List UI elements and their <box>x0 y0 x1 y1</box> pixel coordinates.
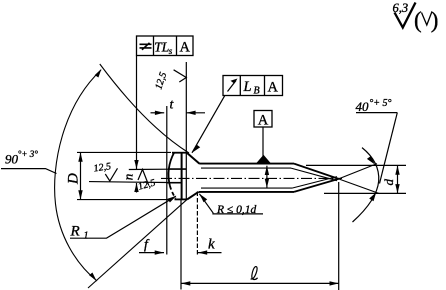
thread dia double arrow up <box>265 166 269 175</box>
extension line below head at max diameter (for f/k and l) <box>180 199 182 290</box>
arrow n top <box>134 160 138 169</box>
screw head dome arc (dashed lower part) <box>170 186 176 199</box>
roughness check on slot floor vertical line <box>174 70 187 82</box>
R<=0,1d leader <box>199 194 263 214</box>
dimension t line left segment <box>151 112 165 114</box>
datum A box <box>254 111 272 128</box>
svg-text:D: D <box>66 173 82 185</box>
40 degree dimension arc <box>353 148 379 222</box>
arrow d top <box>395 165 399 174</box>
screw head dome arc (solid part) <box>169 152 175 185</box>
extension line V1 (dome apex) <box>166 106 168 255</box>
svg-text:40: 40 <box>356 99 370 114</box>
datum A stem <box>262 127 264 156</box>
arrow n bottom <box>134 183 138 192</box>
svg-text:A: A <box>258 113 269 129</box>
40 degree label shelf <box>356 112 397 114</box>
arrow R leader <box>199 194 207 202</box>
roughness check on slot bottom ext line <box>105 3 432 186</box>
wire: D top extension line <box>77 151 171 153</box>
svg-text:d: d <box>381 179 396 186</box>
arrowheads <box>78 69 399 286</box>
screw head max-diameter edge (thick vertical) <box>181 153 183 199</box>
surface finish big check top right <box>395 3 416 28</box>
shank bottom line <box>199 191 294 193</box>
head cone bottom edge <box>187 192 198 200</box>
feature control frame TLs <box>137 36 194 56</box>
90 degree label shelf <box>1 169 57 174</box>
90 degree dimension arc <box>55 70 101 281</box>
dimension k line <box>198 252 222 254</box>
d top extension line <box>306 164 406 166</box>
dimension D line <box>80 152 82 199</box>
svg-text:A: A <box>268 80 279 96</box>
symmetry symbol in first cell <box>140 43 152 50</box>
dimension t line right segment <box>186 112 205 114</box>
arrow D bottom <box>78 190 82 199</box>
thread dia double arrow down <box>265 179 269 188</box>
feature control frame LB <box>223 76 283 96</box>
thread minor diameter bottom line <box>201 187 292 189</box>
slot bottom line (inside head) <box>167 182 182 184</box>
tip taper top edge <box>294 164 339 179</box>
40 degree label leader <box>380 113 398 184</box>
arrow k <box>198 250 207 254</box>
shank top line <box>199 163 294 165</box>
slot floor line V3 (extension above head to slot floor) <box>185 62 187 200</box>
screw head top edge <box>172 152 187 154</box>
arrow 90 arc bottom <box>89 273 96 281</box>
extension line from bearing plane (for k) <box>196 192 198 255</box>
svg-text:°+ 3°: °+ 3° <box>18 149 38 159</box>
arrow 40 arc bottom <box>369 192 376 201</box>
svg-text:6,3: 6,3 <box>393 1 409 15</box>
tip taper bottom edge <box>294 179 339 192</box>
thread minor taper bottom <box>292 177 337 189</box>
svg-text:TL: TL <box>154 39 169 54</box>
LB frame leader <box>192 96 225 153</box>
arrow d bottom <box>395 184 399 193</box>
tip point extension lower (40deg line) <box>339 179 380 194</box>
svg-text:°+ 5°: °+ 5° <box>369 98 391 109</box>
svg-text:): ) <box>431 8 439 33</box>
svg-text:(: ( <box>414 8 422 33</box>
arrow LB leader <box>192 145 200 153</box>
90 degree angle line A (upper-left) <box>100 64 189 153</box>
svg-text:B: B <box>254 86 260 97</box>
slot top surface extension line (n dimension) <box>129 168 170 170</box>
svg-text:n: n <box>121 174 136 181</box>
slot top line <box>169 168 186 170</box>
arrow t left <box>155 111 164 115</box>
arrow D top <box>78 152 82 161</box>
wire: D bottom extension line <box>77 199 170 201</box>
screw head bottom edge <box>175 198 188 200</box>
svg-text:k: k <box>208 237 215 253</box>
extension line from tip down to l dimension <box>338 182 340 290</box>
svg-text:L: L <box>243 79 252 95</box>
arrow l right <box>330 281 339 285</box>
dimension d line <box>397 165 399 193</box>
small check in parentheses <box>422 12 432 25</box>
screw axis centerline <box>161 177 342 179</box>
svg-text:90: 90 <box>5 152 19 167</box>
svg-text:R: R <box>70 224 80 240</box>
tip point extension upper (40deg line) <box>339 164 377 179</box>
dimension l line <box>181 282 339 284</box>
roughness check (inverted) under slot top ext line <box>138 169 149 185</box>
arrow R1 leader <box>168 196 177 203</box>
arrow l left <box>181 281 190 285</box>
thread minor taper top <box>291 168 337 181</box>
svg-text:R ≤ 0,1d: R ≤ 0,1d <box>216 204 256 216</box>
dimension f line <box>139 252 164 254</box>
arrow f <box>155 250 164 254</box>
head cone top edge <box>187 153 200 164</box>
arrow t right <box>186 111 195 115</box>
90 degree angle line B (lower-left) <box>88 199 187 288</box>
slot bottom surface extension line (with roughness mark) <box>89 181 167 184</box>
datum A filled triangle <box>256 155 271 164</box>
thread dia double arrow shaft <box>266 166 268 188</box>
arrow 90 arc top <box>95 69 102 78</box>
svg-text:1: 1 <box>84 231 89 242</box>
label l (script ell, drawn) <box>251 267 258 280</box>
thread minor diameter top line <box>201 167 291 169</box>
R1 label underline and leader <box>70 196 176 238</box>
slant arrow symbol in first cell <box>228 81 237 92</box>
svg-text:A: A <box>180 40 191 56</box>
d bottom extension line <box>324 192 406 194</box>
dimension n line <box>136 56 138 170</box>
arrow 40 arc top <box>367 156 375 165</box>
svg-text:s: s <box>169 46 173 56</box>
